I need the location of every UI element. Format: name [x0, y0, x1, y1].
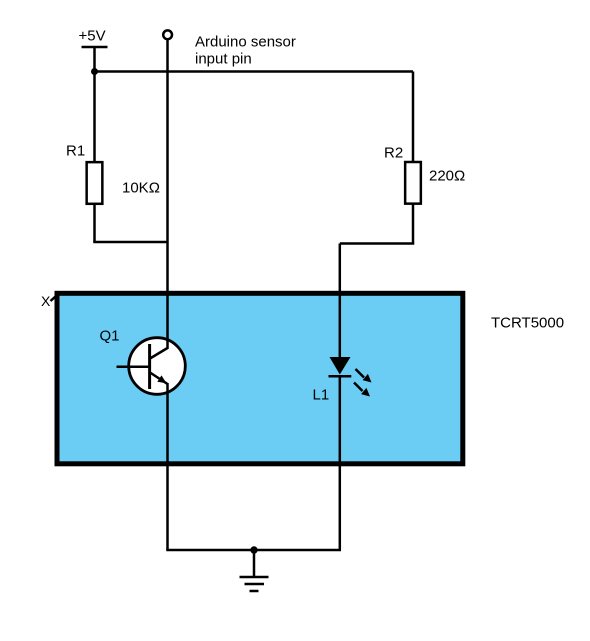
svg-text:input pin: input pin — [195, 51, 252, 68]
svg-text:+5V: +5V — [79, 28, 106, 45]
svg-text:Arduino sensor: Arduino sensor — [195, 34, 296, 51]
svg-text:X: X — [41, 293, 51, 309]
svg-text:R2: R2 — [384, 145, 403, 162]
svg-text:10KΩ: 10KΩ — [122, 180, 160, 197]
svg-text:L1: L1 — [313, 387, 330, 404]
svg-text:Q1: Q1 — [100, 328, 120, 345]
svg-text:TCRT5000: TCRT5000 — [491, 315, 564, 332]
svg-text:R1: R1 — [66, 143, 85, 160]
svg-text:220Ω: 220Ω — [429, 168, 465, 185]
